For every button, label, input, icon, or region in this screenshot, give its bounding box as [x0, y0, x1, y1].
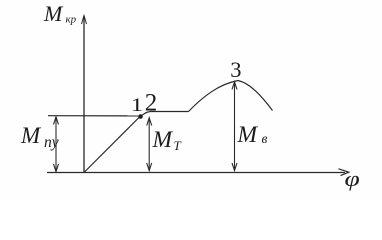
plateau line after point 2: [150, 111, 189, 113]
svg-text:M: M: [20, 123, 42, 148]
y-axis arrowhead: [82, 16, 87, 25]
svg-text:M: M: [237, 122, 259, 148]
horizontal level line at Mpu: [48, 115, 138, 117]
node point 1 dot: [138, 114, 143, 119]
svg-text:M: M: [152, 127, 174, 153]
svg-text:φ: φ: [345, 167, 360, 191]
svg-text:2: 2: [145, 90, 158, 117]
connector curve from point 1 to point 2: [142, 112, 150, 116]
Mpu double arrow: [54, 117, 59, 172]
diagonal line from origin to point 1: [85, 117, 140, 172]
x-axis arrowhead: [339, 169, 349, 176]
x-axis: [47, 172, 345, 174]
svg-text:пу: пу: [44, 134, 59, 151]
svg-text:кр: кр: [66, 14, 77, 26]
svg-text:Т: Т: [174, 138, 182, 153]
svg-text:1: 1: [131, 94, 144, 115]
svg-text:в: в: [262, 131, 268, 146]
y-axis: [83, 16, 85, 173]
svg-text:M: M: [43, 1, 64, 26]
svg-text:3: 3: [230, 57, 241, 82]
Mv double arrow: [232, 82, 237, 171]
MT double arrow: [147, 118, 152, 171]
hump curve with maximum at point 3: [189, 81, 273, 112]
